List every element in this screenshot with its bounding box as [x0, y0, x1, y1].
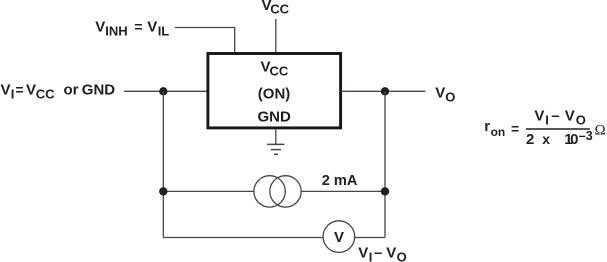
svg-text:2 mA: 2 mA: [322, 173, 358, 189]
svg-text:V: V: [147, 18, 157, 35]
wire box right to output: [341, 90, 426, 92]
label VINH = VIL: [95, 18, 169, 38]
wire left vertical branch: [162, 91, 164, 237]
node left current-source junction dot: [159, 187, 167, 195]
wire ground stem from box bottom: [275, 130, 277, 145]
svg-text:O: O: [576, 113, 586, 128]
svg-text:2: 2: [526, 131, 534, 148]
svg-text:I: I: [545, 113, 549, 128]
node right current-source junction dot: [381, 187, 389, 195]
svg-text:–: –: [374, 245, 382, 262]
svg-text:on: on: [491, 125, 506, 139]
wire VCC supply to box top: [275, 19, 277, 53]
svg-text:10: 10: [564, 131, 578, 148]
svg-text:I: I: [11, 87, 15, 102]
svg-text:(ON): (ON): [258, 86, 291, 103]
svg-text:x: x: [542, 131, 550, 147]
svg-text:–3: –3: [579, 129, 593, 143]
svg-text:GND: GND: [258, 109, 292, 126]
node input junction dot: [159, 87, 167, 95]
label VI - VO under voltmeter: [358, 245, 406, 262]
svg-text:V: V: [435, 85, 445, 102]
wire VINH vertical drop to box top: [234, 28, 236, 54]
svg-text:V: V: [534, 108, 544, 125]
svg-text:V: V: [386, 245, 396, 262]
svg-text:Ω: Ω: [595, 123, 606, 139]
wire voltmeter to right branch: [355, 237, 385, 239]
svg-text:V: V: [565, 108, 575, 125]
label VO output: [435, 85, 455, 105]
wire input to box left: [124, 90, 207, 92]
svg-text:I: I: [369, 249, 373, 262]
svg-text:CC: CC: [36, 87, 55, 102]
svg-text:=: =: [511, 121, 519, 137]
wire current source to right branch: [301, 190, 385, 192]
svg-text:V: V: [1, 82, 11, 99]
voltmeter M1 circle: [323, 221, 355, 253]
equation r_on = (VI-VO)/(2 x 10^-3) ohm: [484, 108, 605, 148]
svg-text:V: V: [334, 229, 344, 246]
svg-text:O: O: [397, 249, 407, 262]
ground symbol: [267, 144, 284, 154]
analog switch box U1: [208, 54, 341, 128]
label VI = VCC or GND: [1, 82, 116, 102]
svg-text:–: –: [551, 108, 559, 125]
svg-text:IL: IL: [158, 23, 170, 38]
svg-text:r: r: [484, 118, 490, 135]
svg-text:CC: CC: [270, 2, 289, 17]
svg-text:=: =: [15, 82, 23, 98]
svg-text:CC: CC: [270, 64, 289, 79]
svg-text:V: V: [358, 245, 368, 262]
wire bottom left to voltmeter: [163, 237, 323, 239]
svg-text:V: V: [95, 18, 105, 35]
svg-text:or: or: [64, 82, 79, 99]
svg-text:O: O: [445, 90, 455, 105]
current source I1 (overlapping circles): [254, 176, 301, 207]
wire right vertical branch: [384, 91, 386, 237]
svg-text:GND: GND: [82, 82, 116, 99]
fraction bar: [526, 128, 590, 130]
wire VINH horizontal: [175, 27, 235, 29]
node output junction dot: [381, 87, 389, 95]
svg-text:V: V: [26, 82, 36, 99]
wire left to current source: [163, 190, 254, 192]
label VCC pin inside box: [261, 59, 289, 79]
svg-text:INH: INH: [105, 23, 127, 38]
svg-text:=: =: [134, 18, 142, 34]
label VCC top supply: [262, 0, 290, 17]
